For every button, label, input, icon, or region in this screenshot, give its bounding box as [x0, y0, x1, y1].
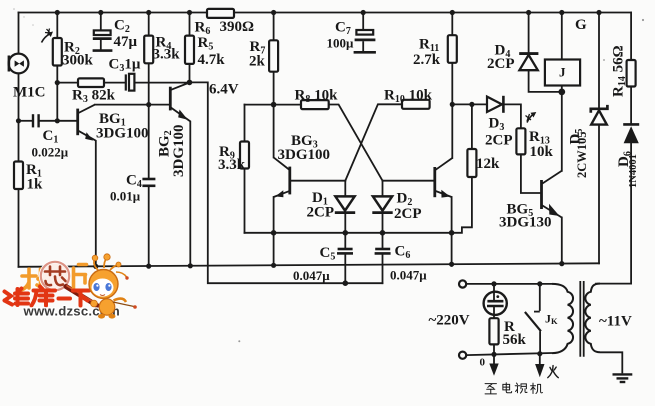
resistor R4 3.3k — [144, 36, 153, 64]
transistor BG3 — [274, 157, 290, 197]
relay J coil box — [545, 60, 580, 86]
wire R7 column — [273, 13, 275, 41]
svg-text:3DG100: 3DG100 — [278, 147, 331, 163]
svg-text:3DG100: 3DG100 — [96, 126, 149, 142]
wire BG4 base — [383, 180, 434, 182]
wire Jk arrow fire — [535, 354, 544, 378]
resistor R8 10k — [301, 100, 329, 109]
adjust arrow R2 — [42, 29, 54, 43]
transistor BG4 — [435, 158, 453, 198]
wire BG4 collector column — [451, 104, 453, 158]
switch Jk — [525, 284, 541, 354]
svg-text:2CW105: 2CW105 — [575, 131, 589, 178]
wire R13 to BG5 base — [521, 154, 541, 193]
label to-TV chinese — [485, 383, 542, 394]
wire 220V top — [467, 283, 552, 285]
wire R3 feedback — [57, 82, 78, 84]
diode D2 2CP — [372, 196, 392, 212]
wm yi — [59, 297, 71, 301]
svg-text:R8 10k: R8 10k — [295, 88, 339, 106]
capacitor C1 0.022u — [33, 114, 39, 127]
resistor R10 10k — [402, 100, 430, 109]
wire R12 top lead — [471, 104, 473, 149]
char dian — [503, 383, 512, 393]
wire top supply rail — [19, 12, 208, 14]
svg-text:0: 0 — [480, 357, 486, 369]
wire R9 leads — [244, 105, 246, 142]
wm xia — [73, 291, 89, 306]
svg-text:G: G — [575, 17, 587, 33]
svg-text:R10 10k: R10 10k — [384, 88, 433, 106]
svg-text:3DG130: 3DG130 — [499, 215, 552, 231]
diode D3 2CP — [487, 96, 503, 113]
transformer secondary winding — [585, 284, 600, 353]
wm mascot — [89, 254, 137, 319]
svg-text:4.7k: 4.7k — [198, 52, 226, 68]
transformer primary winding — [552, 284, 573, 353]
wire R11 column — [451, 13, 453, 36]
capacitor C4 0.01u — [142, 179, 155, 186]
svg-text:47μ: 47μ — [114, 34, 138, 50]
resistor R6 390ohm — [207, 9, 234, 18]
wire R8 right to BG4 base diagonal — [329, 105, 383, 181]
wire BG4 emitter column — [451, 197, 453, 266]
transistor BG1 — [78, 105, 96, 267]
wm pian char — [74, 265, 87, 291]
wm ku — [32, 287, 56, 306]
svg-text:6.4V: 6.4V — [209, 82, 239, 98]
transistor BG5 — [542, 171, 562, 218]
svg-text:1N4001: 1N4001 — [628, 154, 639, 188]
neon lamp — [484, 284, 507, 318]
capacitor C5 0.047u — [337, 249, 353, 253]
svg-text:390Ω: 390Ω — [220, 19, 255, 35]
svg-text:~220V: ~220V — [429, 313, 470, 329]
wire R2 column — [56, 13, 58, 39]
svg-text:56k: 56k — [503, 332, 527, 348]
svg-text:10k: 10k — [530, 144, 554, 160]
wire BG1 collector to BG2 base — [95, 104, 169, 106]
wire node B to D3 to R13 — [452, 103, 486, 105]
node 220V top terminal — [459, 280, 466, 287]
microphone M1C — [9, 54, 29, 74]
svg-text:M1C: M1C — [13, 85, 46, 101]
wire D4 column — [528, 13, 530, 53]
svg-text:R3 82k: R3 82k — [72, 88, 116, 106]
ground symbol — [613, 374, 633, 382]
svg-text:3.3k: 3.3k — [153, 47, 181, 63]
wire secondary bottom to ground — [600, 352, 622, 373]
wire D1 column — [344, 181, 346, 197]
wm zhao char — [21, 269, 46, 291]
svg-text:300k: 300k — [62, 53, 94, 69]
resistor R9 3.3k — [240, 142, 249, 169]
wire R5 column — [189, 13, 191, 36]
wire C1 to BG1 base — [19, 120, 32, 122]
capacitor C2 47u electrolytic — [93, 13, 113, 51]
wire 220V bottom — [467, 353, 552, 355]
wire BG3 emitter column — [273, 197, 275, 266]
resistor R2 300k — [53, 38, 62, 66]
wire ground rail — [19, 263, 600, 267]
char ji — [531, 383, 543, 393]
capacitor C6 0.047u — [375, 249, 391, 253]
svg-text:R14 56Ω: R14 56Ω — [611, 45, 629, 97]
wire BG5 emitter — [561, 218, 563, 265]
svg-text:2CP: 2CP — [307, 205, 335, 221]
transformer core — [580, 281, 583, 357]
resistor R13 10k — [516, 128, 525, 154]
wire R bottom + arrow 0 — [489, 344, 498, 375]
wire emitter rail — [245, 177, 472, 233]
svg-text:12k: 12k — [476, 156, 500, 172]
capacitor C7 100u electrolytic — [354, 13, 376, 53]
svg-text:J: J — [559, 65, 566, 80]
wire R10 left to BG3 base diagonal — [345, 104, 402, 180]
wire BG3 base — [291, 180, 345, 182]
svg-text:2CP: 2CP — [487, 56, 515, 72]
resistor R14 56ohm — [627, 60, 636, 87]
char zhi — [485, 384, 496, 394]
wire 6.4V node to trigger line — [190, 82, 383, 283]
wm weikuyixia red text — [5, 287, 90, 306]
svg-text:1k: 1k — [27, 177, 44, 193]
wire R4 column — [148, 13, 150, 36]
transistor BG2 — [170, 83, 190, 267]
wire relay leads — [561, 13, 563, 60]
wire D5 column — [598, 13, 600, 108]
resistor R7 2k — [269, 40, 278, 71]
svg-text:~11V: ~11V — [599, 314, 632, 330]
svg-text:C31μ: C31μ — [109, 57, 141, 75]
speck dots — [13, 8, 644, 342]
resistor R3 82k — [78, 78, 104, 87]
adjust arrow R13 — [526, 112, 537, 123]
resistor R12 12k — [467, 149, 476, 177]
junction dots mains — [491, 281, 542, 357]
diode D6 1N4001 — [623, 124, 639, 143]
resistor R5 4.7k — [185, 36, 194, 64]
resistor R11 2.7k — [448, 35, 457, 63]
svg-text:0.022μ: 0.022μ — [32, 145, 69, 160]
svg-text:0.047μ: 0.047μ — [293, 268, 330, 283]
svg-text:2CP: 2CP — [394, 206, 422, 222]
svg-text:2k: 2k — [249, 54, 266, 70]
resistor R1 1k — [14, 162, 23, 190]
wire D2 column — [382, 181, 384, 197]
wire BG5 collector — [561, 92, 563, 171]
resistor R 56k — [489, 318, 498, 344]
char shi — [515, 383, 527, 393]
svg-text:3.3k: 3.3k — [218, 157, 246, 173]
capacitor C3 1u — [126, 74, 135, 91]
wire left column — [18, 13, 20, 54]
svg-text:2CP: 2CP — [485, 133, 513, 149]
diode D5 zener 2CW105 — [591, 105, 608, 125]
wire node A horizontal — [245, 104, 302, 106]
watermark — [5, 254, 137, 319]
diode D1 2CP — [335, 196, 355, 212]
svg-text:100μ: 100μ — [327, 36, 355, 51]
diode D4 2CP — [519, 54, 538, 71]
svg-text:0.01μ: 0.01μ — [110, 189, 141, 204]
wire R14 / D6 column — [630, 13, 632, 61]
svg-text:2.7k: 2.7k — [413, 52, 441, 68]
node 220V bottom terminal — [459, 352, 466, 359]
svg-text:3DG100: 3DG100 — [171, 125, 187, 178]
wm wei — [5, 292, 13, 305]
svg-text:0.047μ: 0.047μ — [390, 268, 427, 283]
wire C4 column — [148, 105, 150, 178]
label fire char — [548, 366, 559, 378]
wm magnifier with xin char — [41, 262, 98, 306]
